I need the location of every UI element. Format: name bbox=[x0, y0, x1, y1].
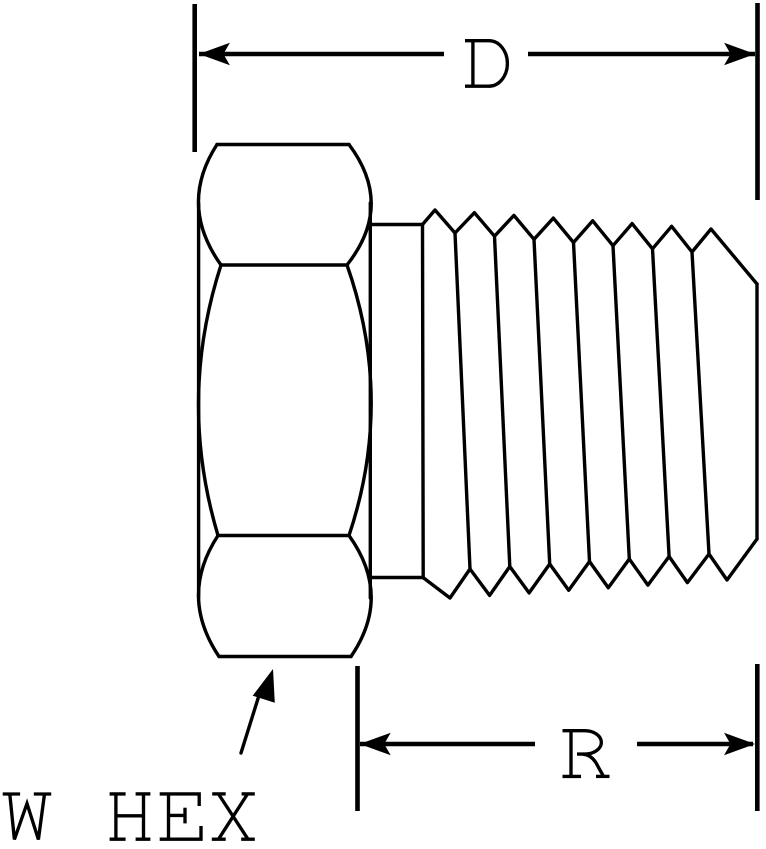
label W HEX: letter W bbox=[3, 794, 52, 840]
dimension D: right dimension line segment bbox=[528, 52, 755, 57]
thread bottom crest zigzag bbox=[423, 539, 757, 598]
hex head: top band right chamfer arc bbox=[347, 145, 371, 266]
thread flank line 6 bbox=[653, 249, 670, 557]
dimension R: right arrowhead bbox=[724, 733, 755, 756]
thread end face bbox=[755, 284, 758, 539]
thread shoulder: bottom line bbox=[370, 576, 423, 579]
hex head: bottom edge bbox=[219, 655, 351, 658]
dimension D: left extension line bbox=[192, 4, 197, 152]
dimension D: right extension line bbox=[755, 3, 760, 200]
label W HEX: letter X bbox=[212, 794, 255, 839]
hex head: upper face line bbox=[221, 263, 347, 266]
dimension D: right arrowhead bbox=[724, 43, 755, 66]
hex head: top band left chamfer arc bbox=[198, 145, 221, 266]
dimension D: letter D bbox=[465, 41, 507, 86]
hex head: right silhouette vertical bbox=[369, 203, 372, 598]
hex head: middle band left chamfer arc bbox=[198, 265, 221, 536]
thread start edge bbox=[421, 225, 425, 578]
leader arrow shaft (W HEX callout) bbox=[241, 697, 259, 753]
dimension R: letter R bbox=[563, 731, 610, 777]
thread flank line 5 bbox=[613, 246, 629, 559]
thread flank line 1 bbox=[455, 233, 470, 569]
thread flank line 3 bbox=[534, 239, 550, 564]
label W HEX: letter E bbox=[160, 794, 201, 839]
hex head: bottom band left chamfer arc bbox=[198, 536, 219, 657]
dimension D: left dimension line segment bbox=[199, 52, 444, 57]
hex head: top edge bbox=[217, 143, 349, 146]
dimension R: right extension line bbox=[755, 664, 760, 811]
dimension D: left arrowhead bbox=[199, 43, 230, 66]
thread flank line 7 bbox=[692, 252, 709, 554]
thread shoulder: top line bbox=[370, 223, 422, 226]
hex head: left silhouette vertical bbox=[197, 203, 200, 597]
thread flank line 2 bbox=[495, 236, 510, 566]
dimension R: right dimension line segment bbox=[637, 742, 753, 747]
hex head: middle band right chamfer arc bbox=[347, 265, 371, 536]
thread top crest zigzag bbox=[423, 210, 758, 284]
dimension R: left arrowhead bbox=[360, 733, 391, 756]
hex head: bottom band right chamfer arc bbox=[349, 536, 371, 657]
label W HEX: letter H bbox=[110, 794, 151, 839]
dimension R: left dimension line segment bbox=[360, 742, 535, 747]
dimension R: left extension line bbox=[355, 666, 360, 811]
hex head: lower face line bbox=[218, 534, 349, 537]
thread flank line 4 bbox=[574, 243, 590, 562]
leader arrowhead (W HEX callout) bbox=[253, 669, 275, 703]
